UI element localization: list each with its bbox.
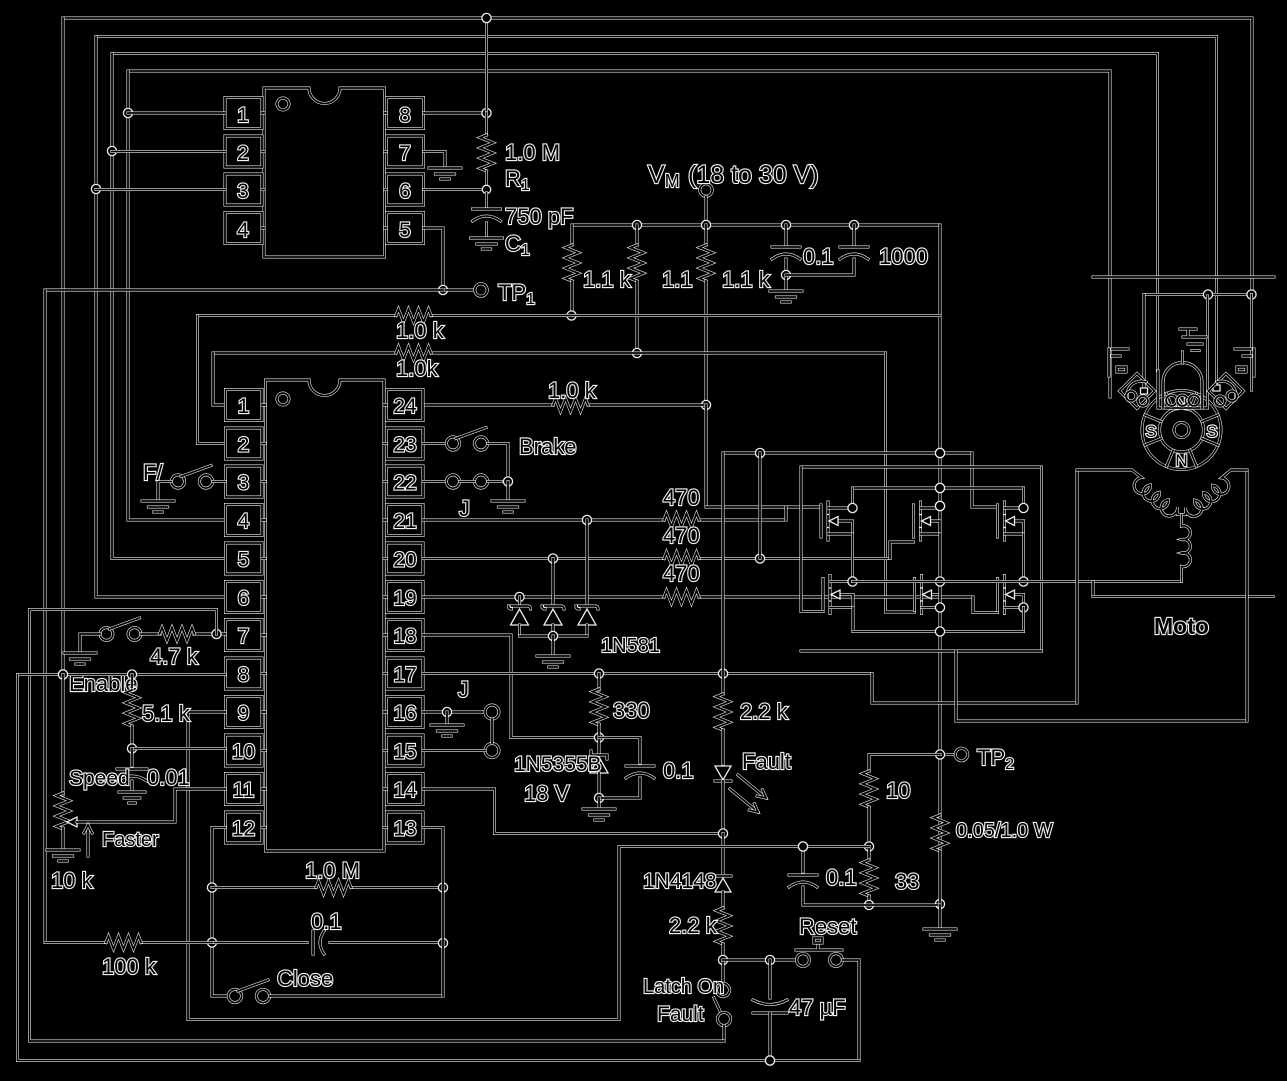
wire latch reset row [723, 955, 797, 964]
rotor spokes [1145, 394, 1218, 467]
ground zener [583, 798, 615, 820]
svg-text:1: 1 [238, 395, 250, 418]
U1 pin 5 label [399, 219, 411, 242]
U2 pin 4 label [238, 510, 250, 533]
node Q2 drain [935, 501, 944, 510]
label Enable [69, 671, 138, 696]
svg-text:1.0 M: 1.0 M [305, 858, 360, 883]
test point TP1 [475, 284, 487, 296]
transistor Q4 bottom left [823, 576, 853, 614]
wire pin1 riser [213, 353, 226, 405]
wire pin20 net [423, 554, 890, 563]
U2 pin 17 label [393, 664, 416, 687]
capacitor 0.01 [117, 749, 147, 792]
svg-text:21: 21 [393, 510, 416, 533]
wire pin12 net [207, 828, 228, 997]
resistor 1.0k pin2 [396, 309, 431, 322]
U2 pin 7 label [238, 625, 250, 648]
svg-text:6: 6 [399, 180, 411, 203]
svg-text:20: 20 [393, 549, 416, 572]
wire gate box left to Q4 [801, 467, 823, 612]
svg-text:14: 14 [393, 779, 417, 802]
svg-text:1: 1 [237, 104, 249, 127]
svg-text:2.2 k: 2.2 k [669, 913, 718, 938]
U2 pin 23 label [393, 434, 416, 457]
wire left rail x96 to pin6 [91, 37, 225, 598]
label 1N4148 [643, 870, 717, 893]
hall sensor right body [1209, 374, 1244, 409]
U2 pin 14 label [393, 779, 417, 802]
wire U1 pin1 [128, 112, 225, 115]
svg-text:10 k: 10 k [51, 868, 94, 893]
label 4.7k [150, 644, 199, 669]
hall sensor middle dome [1163, 363, 1202, 408]
svg-text:6: 6 [238, 587, 250, 610]
U1 pin 4 box [225, 213, 264, 244]
U2 pin 5 box [226, 543, 266, 574]
wire motor return left [872, 674, 1077, 704]
U2 pin 13 box [384, 812, 423, 843]
diode 1N581 right [576, 520, 598, 636]
wire VM bus [572, 220, 940, 229]
U1 pin 2 box [225, 136, 264, 167]
wire pin8 vref net [18, 670, 860, 1065]
wire pin21 jog to Q1 gate [785, 507, 788, 520]
label Faster [102, 829, 159, 851]
wire pin9 net [188, 712, 869, 1020]
label 1.0k pin1 [396, 356, 439, 381]
svg-text:18 V: 18 V [524, 781, 570, 806]
LED Fault [715, 766, 731, 834]
svg-text:1.0 M: 1.0 M [505, 140, 560, 165]
U2 pin 17 box [384, 658, 423, 689]
resistor 1.0k pin1 [396, 347, 431, 360]
svg-text:1.0 k: 1.0 k [548, 378, 597, 403]
svg-text:1000: 1000 [879, 244, 928, 269]
wire Q2 source to Q5 drain [935, 534, 944, 632]
resistor 470 pin19 [664, 591, 699, 604]
ground sensor middle [1180, 329, 1206, 351]
label 18V [524, 781, 570, 806]
ground 0.1 VM [770, 275, 802, 302]
label 10 [886, 778, 910, 803]
wire U1 pin3 [96, 188, 225, 191]
svg-text:3: 3 [238, 472, 250, 495]
arrow Faster [84, 825, 92, 856]
resistor 1.0M zigzag [316, 881, 351, 894]
ground brake jumper [492, 501, 524, 512]
wire gate box bottom [801, 650, 1042, 653]
U2 pin 2 label [238, 434, 250, 457]
wire motor return right [956, 651, 1247, 721]
wire left rail x45 [44, 290, 47, 943]
label 33 [895, 869, 919, 894]
svg-text:17: 17 [393, 664, 416, 687]
svg-text:0.1: 0.1 [311, 909, 342, 934]
label 5.1k [142, 701, 191, 726]
U2 pin 12 label [232, 818, 255, 841]
U2 pin 9 box [226, 697, 266, 728]
wire Q6 source drop [1022, 608, 1025, 632]
label C1 value [505, 204, 574, 229]
wire Q1 gate lead [706, 506, 821, 509]
jumper J pins 16-15 [485, 705, 499, 758]
U2 pin 16 box [384, 697, 423, 728]
svg-text:470: 470 [663, 561, 700, 586]
svg-text:8: 8 [399, 104, 411, 127]
U2 pin 16 label [393, 702, 416, 725]
ground diode bus [537, 656, 569, 667]
node R1/C1 junction pin6 [424, 185, 491, 193]
wire U1 pin5 to TP1 [424, 228, 475, 295]
wire VM rail down x940 [935, 225, 944, 534]
label Brake [519, 434, 576, 459]
U2 pin 8 box [226, 658, 266, 689]
svg-text:Brake: Brake [519, 434, 576, 459]
svg-text:7: 7 [238, 625, 250, 648]
wire pin19 jog to Q6 gate [973, 597, 998, 613]
pot wiper to pin11 [67, 789, 226, 827]
U1 pin 1 label [237, 104, 249, 127]
resistor 33 [863, 847, 876, 910]
svg-text:5: 5 [238, 549, 250, 572]
svg-text:4: 4 [237, 219, 249, 242]
wire Q3 source to Q6 drain [1019, 534, 1028, 612]
wire diode anode bus [520, 631, 588, 655]
label 100k [102, 954, 157, 979]
label 1.0k pin2 [396, 318, 445, 343]
label 2.2k latch [669, 913, 718, 938]
inductor motor center coil [1182, 515, 1191, 582]
svg-text:F/: F/ [143, 460, 163, 485]
label 470 pin20 [663, 523, 700, 548]
wire x972 to Q3 gate [972, 453, 998, 507]
svg-text:11: 11 [233, 779, 255, 802]
label Close [277, 966, 333, 991]
label 0.1 zener [663, 758, 694, 783]
resistor 5.1k [126, 675, 139, 754]
resistor 2.2k fault [717, 453, 730, 764]
switch Latch On Fault [714, 960, 731, 1041]
label rotor N bottom [1175, 451, 1187, 470]
U1 pin 4 label [237, 219, 249, 242]
U2 pin 18 box [384, 620, 423, 651]
wire phase mid y581 to motor [853, 580, 1182, 583]
svg-text:Speed: Speed [69, 767, 130, 790]
label R1 value [505, 140, 560, 165]
label Speed [69, 767, 130, 790]
svg-text:470: 470 [663, 485, 700, 510]
svg-text:10: 10 [232, 741, 255, 764]
svg-text:24: 24 [393, 395, 417, 418]
svg-text:470: 470 [663, 523, 700, 548]
wire pin1 net y353 [213, 352, 886, 355]
wire sensor right drop [1250, 295, 1253, 391]
label J pin22 [459, 496, 470, 521]
label 0.1 sense [826, 865, 857, 890]
svg-text:1N581: 1N581 [601, 635, 660, 657]
svg-text:3: 3 [237, 180, 249, 203]
U1 pin 3 box [225, 174, 264, 205]
U2 pin 20 label [393, 549, 416, 572]
svg-text:0.05/1.0 W: 0.05/1.0 W [956, 820, 1053, 842]
U2 pin 9 label [238, 702, 250, 725]
resistor 1.1k first [566, 225, 579, 320]
ground F/R [142, 501, 174, 512]
transistor Q5 bottom middle [915, 576, 941, 614]
wire pin24 to Q1 gate feed [705, 405, 708, 507]
svg-text:23: 23 [393, 434, 416, 457]
label F/R [143, 460, 163, 485]
U1 pin 8 label [399, 104, 411, 127]
svg-text:Close: Close [277, 966, 333, 991]
label 1.0k pin24 [548, 378, 597, 403]
resistor 100k [45, 941, 212, 944]
U2 pin 6 box [226, 582, 266, 613]
resistor 470 pin20 [664, 552, 699, 565]
U1 pin 6 label [399, 180, 411, 203]
svg-text:Faster: Faster [102, 829, 159, 851]
rotor outer circle [1142, 391, 1221, 470]
wire pin1 to Q5 gate [886, 353, 915, 612]
U2 pin 15 box [384, 735, 423, 766]
ground U1 pin7 [429, 168, 461, 179]
ground pot [47, 850, 79, 861]
svg-text:N: N [1175, 451, 1187, 470]
U1 pin 7 label [399, 142, 411, 165]
svg-text:16: 16 [393, 702, 416, 725]
wire motor left edge [1076, 470, 1079, 703]
switch F/R [158, 466, 226, 501]
capacitor 0.1 zener [599, 738, 654, 799]
svg-text:100 k: 100 k [102, 954, 157, 979]
potentiometer 10k [57, 675, 70, 850]
svg-text:9: 9 [238, 702, 250, 725]
svg-text:12: 12 [232, 818, 255, 841]
U2 pin 12 box [226, 812, 266, 843]
label 1000 [879, 244, 928, 269]
resistor 1.0M feedback [212, 883, 448, 892]
U2 pin 20 box [384, 543, 423, 574]
wire Q4 source drop [852, 608, 855, 632]
wire x760 tie [759, 453, 762, 559]
label 47uF [789, 995, 846, 1020]
label 1.1 second [662, 267, 693, 292]
wire sensor left drop [1141, 295, 1148, 395]
wire drain bus top [853, 483, 1024, 492]
U2 pin 11 box [226, 774, 266, 805]
wire fault pullup top [723, 448, 972, 457]
svg-text:S: S [1145, 422, 1156, 441]
wire pin15 [423, 749, 485, 752]
wire pin18 net [423, 635, 604, 742]
svg-text:10: 10 [886, 778, 910, 803]
ground pin16 [431, 725, 463, 736]
hall sensor right bracket [1235, 349, 1254, 376]
ground 0.01 [119, 792, 145, 803]
capacitor 47uF [753, 960, 787, 1065]
wire top rail 1 (Vref to sensors) [63, 18, 1252, 295]
svg-text:7: 7 [399, 142, 411, 165]
wire sense rail x940 [935, 632, 944, 909]
svg-text:18: 18 [393, 625, 416, 648]
diode 1N4148 [715, 834, 731, 909]
wire pin16 [423, 707, 485, 724]
wire left rail x128 to pin4 [123, 71, 225, 520]
wire Q1 source to Q4 drain [848, 534, 857, 586]
transistor Q1 top left [821, 502, 853, 540]
wire 0.1 to 1000 bottoms [786, 259, 854, 275]
transistor Q6 bottom right [998, 576, 1024, 614]
label Motor [1154, 613, 1209, 639]
svg-text:2: 2 [238, 434, 250, 457]
wire top rail 2 (phase A sense) [96, 37, 1217, 390]
U2 pin 19 box [384, 582, 423, 613]
wire left rail x112 to pin5 [107, 54, 225, 559]
U2 pin 2 box [226, 428, 266, 459]
U2 pin 21 label [393, 510, 416, 533]
svg-text:8: 8 [238, 664, 250, 687]
U2 pin 1 label [238, 395, 250, 418]
label rotor N top [1175, 394, 1187, 413]
wire Q3 drain riser [1019, 488, 1028, 513]
U2 pin 1 box [226, 390, 266, 421]
svg-text:330: 330 [613, 698, 650, 723]
label 1.1k first [583, 267, 632, 292]
rotor hub [1174, 423, 1189, 438]
svg-text:1.1: 1.1 [662, 267, 693, 292]
capacitor 0.1 feedback [212, 931, 448, 954]
U1 pin 6 box [385, 174, 424, 205]
svg-text:2.2 k: 2.2 k [740, 699, 789, 724]
wire pin2 net y315 [198, 314, 941, 317]
wire pin21 net [423, 515, 786, 524]
U2 pin 6 label [238, 587, 250, 610]
wire pin14 net [423, 789, 728, 838]
wire motor right edge [1246, 470, 1249, 721]
label Fault latch [657, 1003, 704, 1026]
svg-text:33: 33 [895, 869, 919, 894]
label Reset [799, 914, 856, 939]
svg-text:1N5355B: 1N5355B [514, 753, 602, 776]
U2 pin 3 box [226, 466, 266, 497]
label rotor S left [1145, 422, 1156, 441]
U2 pin 22 label [393, 472, 416, 495]
svg-text:2: 2 [237, 142, 249, 165]
U2 pin 10 label [232, 741, 255, 764]
hall sensor left bracket [1109, 349, 1128, 376]
ground enable switch [64, 653, 96, 664]
svg-text:15: 15 [393, 741, 416, 764]
svg-text:0.01: 0.01 [147, 765, 190, 790]
U2 pin 24 label [393, 395, 417, 418]
capacitor C1 750pF [473, 193, 501, 237]
wire Q1 drain riser [848, 488, 857, 513]
label VM [648, 161, 819, 191]
resistor 100k zigzag [106, 936, 141, 949]
svg-text:1.1 k: 1.1 k [722, 267, 771, 292]
label 470 pin19 [663, 561, 700, 586]
wire U1 pin8 to R1 top [424, 108, 492, 117]
U2 pin 10 box [226, 735, 266, 766]
svg-text:J: J [459, 496, 470, 521]
U2 pin 3 label [238, 472, 250, 495]
wire pin17 net [423, 669, 872, 678]
diode zener 1N5355B [590, 738, 608, 803]
capacitor 0.1 sense [789, 842, 940, 905]
svg-text:1.0 k: 1.0 k [396, 318, 445, 343]
label 1N5355B [514, 753, 602, 776]
svg-text:Latch On: Latch On [643, 976, 724, 998]
resistor 1.1 second [631, 225, 644, 358]
label 0.1 feedback [311, 909, 342, 934]
label R1 name [505, 166, 530, 194]
resistor 10 [863, 755, 941, 852]
test point TP2 [946, 748, 968, 760]
U1 pin 3 label [237, 180, 249, 203]
capacitor 0.1 VM [772, 225, 800, 280]
wire U1 pin2 [112, 150, 225, 153]
svg-text:19: 19 [393, 587, 416, 610]
resistor 0.05/1.0W [934, 815, 947, 905]
jumper J pin22 [423, 475, 513, 500]
svg-text:4.7 k: 4.7 k [150, 644, 199, 669]
U2 pin 22 box [384, 466, 423, 497]
label 1N581 [601, 635, 660, 657]
svg-text:22: 22 [393, 472, 416, 495]
U2 pin 15 label [393, 741, 416, 764]
label 2.2k fault [740, 699, 789, 724]
wire x486 riser to top rail [482, 13, 491, 113]
switch Close [228, 980, 443, 1003]
diode 1N581 middle [542, 559, 564, 637]
resistor 1.0k pin24 [553, 399, 588, 412]
capacitor 1000 [840, 225, 868, 259]
wire gate box right [1040, 467, 1043, 651]
label TP2 [977, 745, 1014, 773]
op-amp U1 MC33039 body [264, 88, 385, 257]
U1 pin 5 box [385, 213, 424, 244]
U2 pin 13 label [393, 818, 416, 841]
wire pin13 riser [423, 828, 443, 997]
wire pin2 riser [198, 316, 226, 444]
resistor 470 pin21 [664, 514, 699, 527]
svg-text:S: S [1206, 422, 1217, 441]
svg-text:13: 13 [393, 818, 416, 841]
U2 pin 4 box [226, 505, 266, 536]
label Latch On [643, 976, 724, 998]
U2 pin 5 label [238, 549, 250, 572]
label rotor S right [1206, 422, 1217, 441]
U1 pin 7 box [385, 136, 424, 167]
U1 pin 1 box [225, 98, 264, 129]
U2 pin 23 box [384, 428, 423, 459]
U2 pin 8 label [238, 664, 250, 687]
sensor line y294 [1144, 290, 1256, 299]
svg-text:(18 to 30 V): (18 to 30 V) [688, 161, 819, 189]
svg-text:0.1: 0.1 [803, 244, 834, 269]
wire pin7 enable net [30, 610, 725, 1042]
transistor Q3 top right [998, 502, 1024, 540]
switch Brake pin23 [423, 428, 508, 482]
wire pin20 jog to Q2 gate [890, 542, 914, 559]
label C1 name [505, 231, 530, 259]
U2 pin 14 box [384, 774, 423, 805]
label Fault LED [742, 749, 791, 774]
wire gate box upper [801, 466, 1042, 469]
switch Enable [80, 618, 141, 652]
label 470 pin21 [663, 485, 700, 510]
